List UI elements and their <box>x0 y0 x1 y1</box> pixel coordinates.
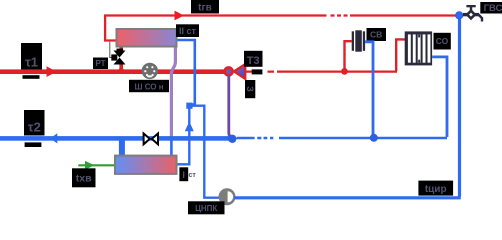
svg-text:tгв: tгв <box>198 3 212 14</box>
wire: branch to СО radiator <box>396 39 405 71</box>
svg-text:I: I <box>182 170 185 180</box>
svg-text:τ1: τ1 <box>25 55 38 70</box>
СО radiator icon <box>405 31 432 65</box>
junction dot СВ branch on supply <box>341 68 348 75</box>
wire: branch to СВ heater <box>345 41 352 71</box>
wire: thick blue stub τ2 into exchanger I top left <box>119 138 125 155</box>
label Ш СО н <box>129 80 169 92</box>
junction dot purple/return <box>228 135 236 143</box>
label СВ <box>367 28 387 41</box>
svg-text:ЦНПК: ЦНПК <box>195 204 217 213</box>
blue stub into exchanger I top right <box>170 138 173 155</box>
circulation pump ЦНПК <box>220 190 234 204</box>
svg-text:Ш СО н: Ш СО н <box>134 82 163 91</box>
arrow on τ2 pointing left <box>50 133 57 143</box>
arrow on tгв line <box>175 11 185 21</box>
strainer on τ1 <box>142 63 158 79</box>
label tцир <box>418 181 453 196</box>
label II ст <box>176 24 199 37</box>
wire: blue from II ст right side down <box>178 40 195 105</box>
sensor line from ГВС outlet to valve actuator <box>110 42 113 58</box>
control valve (hot side, vertical bowtie with actuator) <box>111 49 125 65</box>
svg-text:СВ: СВ <box>370 30 382 40</box>
svg-text:З: З <box>245 86 255 92</box>
heat exchanger II ст <box>117 29 177 47</box>
purple pipe from II ст bottom down across τ1 to return <box>171 48 175 138</box>
junction node square <box>186 103 192 109</box>
wire: return line τ2 (thick blue) <box>0 136 231 141</box>
svg-text:II ст: II ст <box>179 26 197 36</box>
label Э (rotated) <box>245 80 255 98</box>
black bar under Т3 <box>252 69 263 74</box>
3-way valve Т3 <box>225 64 246 79</box>
label РТ <box>93 58 108 70</box>
wire: line A down to exchanger I right port <box>178 106 190 164</box>
junction dot on return <box>370 134 378 142</box>
label tгв <box>191 0 219 14</box>
svg-text:tхв: tхв <box>76 173 92 185</box>
wire: main supply τ1 (thick red) <box>0 69 226 74</box>
label I ст <box>179 167 196 181</box>
wire: pump outlet to right and ГВС riser down <box>234 196 458 199</box>
label τ1 <box>21 43 42 79</box>
purple pipe from 3-way valve down to return <box>229 75 233 138</box>
wire: supply continuation after 3-way valve (dashed) <box>245 70 397 72</box>
СВ heater icon <box>352 30 365 51</box>
wire: red stub exchanger II to control valve to main <box>119 48 123 53</box>
label txв <box>72 168 96 187</box>
valve on τ2 (bowtie) <box>144 134 158 145</box>
heat exchanger I ст <box>115 156 177 174</box>
svg-text:СО: СО <box>436 36 449 46</box>
arrow up on line A <box>185 122 194 132</box>
wire: return continuation (thin, dashed) to right <box>237 137 448 140</box>
svg-text:ГВС: ГВС <box>484 3 502 14</box>
arrow on txв pipe <box>85 161 95 170</box>
wire: line B junction to circulation pump <box>190 106 219 198</box>
faucet ГВС <box>463 5 482 22</box>
wire: top hot-water supply line tгв <box>105 16 326 41</box>
wire: СО return to return line <box>432 57 447 137</box>
svg-text:tцир: tцир <box>425 184 447 195</box>
label τ2 <box>24 110 45 147</box>
green pipe cold water txв <box>78 164 114 166</box>
svg-text:τ2: τ2 <box>28 120 41 135</box>
svg-text:РТ: РТ <box>95 59 105 68</box>
junction dot on tгв at ГВС riser <box>456 12 463 19</box>
label ГВС <box>480 2 502 14</box>
svg-text:ст: ст <box>189 172 197 179</box>
junction dot: valve branch on τ1 <box>118 68 124 74</box>
label ЦНПК <box>188 201 225 214</box>
arrow on τ1 <box>47 66 57 77</box>
svg-text:Т3: Т3 <box>247 55 260 67</box>
wire: СВ return down to return line <box>365 42 373 137</box>
label СО <box>434 33 451 50</box>
label Т3 <box>244 51 263 67</box>
